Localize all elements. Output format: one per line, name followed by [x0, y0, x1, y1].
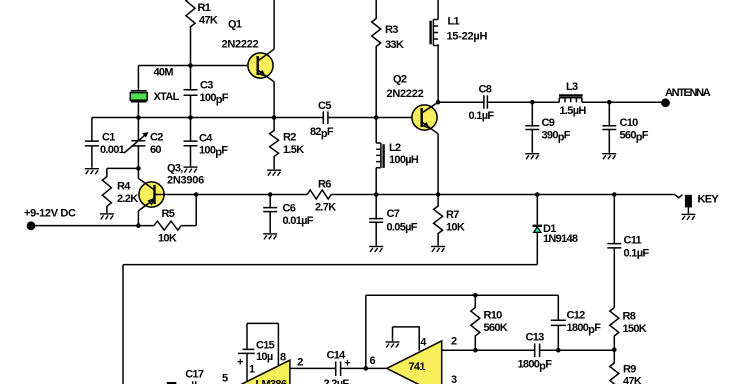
capacitor C17 — [185, 368, 204, 384]
node R7 — [436, 192, 441, 197]
wire op-amp pin2 line — [442, 349, 615, 351]
node R8/R9/C13 — [612, 348, 617, 353]
svg-text:60: 60 — [150, 144, 161, 156]
svg-text:C13: C13 — [526, 331, 545, 343]
svg-text:ANTENNA: ANTENNA — [665, 87, 711, 99]
svg-text:8: 8 — [280, 351, 286, 363]
resistor R7 — [434, 195, 465, 246]
node D1 — [535, 192, 540, 197]
resistor R8 — [610, 308, 647, 350]
svg-text:741: 741 — [409, 361, 426, 373]
svg-text:82pF: 82pF — [310, 126, 334, 140]
svg-text:390pF: 390pF — [542, 129, 571, 143]
svg-text:C11: C11 — [624, 234, 642, 246]
resistor R2 — [270, 118, 305, 170]
wire C14 to node — [341, 367, 366, 369]
svg-text:1800pF: 1800pF — [518, 358, 553, 372]
svg-text:100µH: 100µH — [389, 154, 419, 166]
capacitor C3 — [184, 66, 229, 118]
svg-text:6: 6 — [370, 355, 376, 367]
svg-text:L3: L3 — [566, 81, 578, 93]
node C7 — [374, 192, 379, 197]
svg-text:C2: C2 — [150, 132, 163, 144]
resistor R9 — [610, 350, 642, 384]
svg-text:C17: C17 — [185, 368, 204, 380]
svg-text:L1: L1 — [448, 15, 460, 27]
capacitor C13 — [518, 331, 553, 372]
ground C10 — [602, 154, 616, 160]
svg-text:40M: 40M — [154, 66, 174, 78]
svg-text:R6: R6 — [318, 178, 331, 190]
inductor L1 — [431, 0, 488, 102]
svg-text:Q2: Q2 — [393, 73, 407, 85]
svg-text:0.01µF: 0.01µF — [283, 215, 314, 227]
svg-text:2N2222: 2N2222 — [387, 88, 424, 100]
svg-text:R10: R10 — [484, 309, 503, 321]
capacitor C14 — [324, 349, 351, 384]
svg-text:+: + — [344, 357, 350, 369]
svg-text:C5: C5 — [318, 100, 331, 112]
wire feedback drop to output — [365, 295, 367, 368]
wire Q2 emitter column — [437, 134, 439, 195]
wire rail C5 to Q2 — [328, 117, 422, 119]
svg-text:Q1: Q1 — [228, 18, 242, 30]
svg-text:47K: 47K — [623, 375, 642, 384]
svg-text:R1: R1 — [198, 2, 211, 14]
wire C15 bypass loop — [247, 322, 278, 324]
inductor L3 — [559, 81, 586, 117]
wire Q1 collector column — [273, 0, 275, 49]
svg-text:1N9148: 1N9148 — [543, 233, 578, 245]
svg-text:10K: 10K — [446, 221, 465, 233]
ground C9 — [525, 154, 539, 160]
svg-text:2N2222: 2N2222 — [222, 39, 259, 51]
node Q2 collector/L1 — [436, 100, 441, 105]
inductor L2 — [376, 118, 419, 195]
transistor Q1 2N2222 — [222, 18, 275, 82]
wire xtal column bottom — [137, 102, 139, 117]
svg-text:C12: C12 — [567, 309, 586, 321]
svg-text:0.001: 0.001 — [100, 144, 125, 156]
wire R5 to base node — [181, 195, 196, 226]
node C12 bottom — [556, 348, 561, 353]
svg-text:15-22µH: 15-22µH — [447, 30, 488, 42]
capacitor C10 — [602, 102, 648, 153]
node C2/R4/Q3 collector — [136, 166, 141, 171]
svg-text:C6: C6 — [283, 202, 296, 214]
node C9 — [530, 100, 535, 105]
svg-text:100pF: 100pF — [200, 92, 229, 106]
svg-text:R9: R9 — [623, 363, 636, 375]
node 741 output — [364, 366, 369, 371]
node xtal/C2 — [136, 115, 141, 120]
svg-text:2: 2 — [297, 356, 303, 368]
capacitor C5 — [310, 100, 334, 140]
svg-text:C7: C7 — [387, 208, 400, 220]
svg-text:R5: R5 — [162, 208, 175, 220]
svg-text:C8: C8 — [479, 84, 492, 96]
capacitor C6 — [263, 195, 314, 234]
capacitor C9 — [525, 102, 570, 153]
svg-text:2: 2 — [451, 336, 457, 348]
wire Q1 emitter column — [273, 82, 275, 118]
svg-text:R4: R4 — [117, 181, 131, 193]
capacitor C4 — [184, 118, 229, 167]
wire collector to C8 — [438, 101, 483, 103]
wire L3 to antenna — [582, 101, 662, 103]
resistor R4 — [102, 168, 138, 213]
ground C6 — [263, 234, 277, 240]
node C6 — [268, 192, 273, 197]
node R10 bottom — [473, 348, 478, 353]
ground C7 — [369, 247, 383, 253]
svg-text:1.5µH: 1.5µH — [560, 105, 587, 117]
capacitor C11 — [607, 195, 649, 308]
resistor R3 — [372, 0, 404, 118]
KEY — [675, 193, 720, 213]
wire 741 output to apex — [366, 367, 387, 369]
svg-text:C14: C14 — [327, 349, 347, 361]
svg-text:C3: C3 — [200, 79, 213, 91]
wire R4 to node — [107, 167, 138, 169]
svg-text:C4: C4 — [199, 132, 213, 144]
node Q3 base/R5 — [194, 192, 199, 197]
node Q3 emitter/rail — [136, 223, 141, 228]
diode D1 1N9148 — [533, 195, 578, 265]
capacitor C1 — [85, 118, 125, 168]
terminal ANTENNA — [661, 87, 711, 107]
terminal +9-12V DC — [24, 207, 76, 230]
svg-text:0.05µF: 0.05µF — [387, 221, 418, 233]
svg-text:2.2µF: 2.2µF — [324, 378, 350, 384]
svg-text:47K: 47K — [199, 14, 218, 26]
node R3/L2/Q2 base — [374, 115, 379, 120]
svg-text:KEY: KEY — [698, 193, 720, 205]
wire xtal column top — [137, 66, 139, 91]
svg-text:1.5K: 1.5K — [283, 144, 304, 156]
svg-text:3: 3 — [451, 374, 457, 384]
ground C1 — [85, 169, 99, 175]
resistor R5 — [154, 208, 181, 244]
op-amp U1 LM386 — [234, 360, 290, 384]
pin 4 wire and ground — [393, 327, 428, 351]
svg-text:C10: C10 — [620, 117, 639, 129]
capacitor C15 — [237, 323, 275, 381]
svg-text:Q3,: Q3, — [167, 163, 183, 175]
svg-text:C1: C1 — [102, 132, 115, 144]
svg-text:2N3906: 2N3906 — [167, 174, 204, 186]
ground R4 — [100, 214, 114, 220]
resistor R1 — [186, 0, 218, 66]
wire keying bus left — [196, 194, 307, 196]
ground R2 — [267, 170, 281, 176]
capacitor C8 — [469, 84, 495, 122]
resistor R10 — [471, 295, 508, 350]
svg-text:LM386: LM386 — [256, 379, 287, 384]
node C3/C4 — [188, 115, 193, 120]
node Q1 emitter/R2 — [272, 115, 277, 120]
svg-text:2.2K: 2.2K — [117, 193, 138, 205]
svg-text:C9: C9 — [542, 117, 555, 129]
node C10 — [607, 100, 612, 105]
svg-text:R8: R8 — [623, 310, 636, 322]
resistor R6 — [307, 178, 336, 213]
transistor Q3 2N3906 — [138, 163, 204, 226]
svg-text:5: 5 — [222, 373, 228, 384]
node R1/C3/base-Q1 — [188, 63, 193, 68]
wire +V rail — [31, 225, 154, 227]
svg-text:0.1µF: 0.1µF — [624, 247, 650, 259]
wire C8 to L3 — [488, 101, 559, 103]
svg-text:+: + — [237, 356, 243, 368]
capacitor C2 trimmer — [124, 118, 163, 169]
ground KEY — [681, 214, 695, 220]
wire keying bus right — [331, 194, 675, 196]
svg-text:2.7K: 2.7K — [315, 201, 336, 213]
svg-text:560pF: 560pF — [620, 129, 649, 143]
svg-text:XTAL: XTAL — [154, 91, 180, 103]
op-amp U2 741 — [387, 341, 442, 384]
svg-text:10µ: 10µ — [256, 351, 273, 363]
svg-text:10K: 10K — [158, 232, 177, 244]
svg-text:R2: R2 — [283, 131, 296, 143]
svg-text:R3: R3 — [385, 24, 398, 36]
capacitor C7 — [369, 195, 418, 246]
svg-text:560K: 560K — [484, 322, 508, 334]
ground C4 — [184, 167, 198, 173]
ground R7 — [431, 247, 445, 253]
wire base Q1 — [138, 65, 258, 67]
ground pin4 741 — [386, 342, 400, 348]
wire LM386 pin2 to C14 — [290, 367, 335, 369]
wire feedback rail — [366, 294, 559, 296]
svg-text:L2: L2 — [389, 142, 401, 154]
svg-text:100pF: 100pF — [199, 145, 228, 159]
wire keyed line to audio — [123, 265, 537, 384]
wire rail C1 to C5 — [92, 117, 323, 119]
pin 8 wire — [277, 323, 279, 366]
svg-text:0.1µF: 0.1µF — [469, 110, 495, 122]
svg-text:1: 1 — [249, 364, 255, 376]
svg-text:C15: C15 — [256, 340, 275, 352]
node C11 — [612, 192, 617, 197]
node R10 top — [473, 293, 478, 298]
svg-text:33K: 33K — [385, 39, 404, 51]
svg-text:+9-12V DC: +9-12V DC — [24, 207, 76, 219]
svg-text:1800pF: 1800pF — [567, 322, 602, 336]
svg-text:150K: 150K — [623, 323, 647, 335]
crystal XTAL 40M — [130, 66, 179, 102]
transistor Q2 2N2222 — [387, 73, 439, 133]
capacitor C12 — [551, 295, 601, 350]
svg-text:R7: R7 — [446, 209, 459, 221]
capacitor C16 plate — [167, 382, 177, 384]
